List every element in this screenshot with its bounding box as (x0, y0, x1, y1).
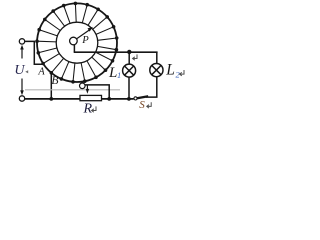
wire from top terminal to ring end A (25, 41, 43, 64)
lamp L2 branch upper wire (156, 52, 158, 64)
resistor R wiper tap wire (85, 85, 109, 99)
wire from ring end B down to bottom rail (50, 73, 52, 99)
lamp L2 (150, 64, 163, 77)
input terminal top (19, 39, 24, 44)
resistor R body (80, 95, 102, 100)
svg-text:P: P (81, 35, 89, 46)
switch S pivot circle (134, 97, 137, 100)
winding contact studs (dots) (35, 2, 118, 84)
svg-text:1: 1 (117, 70, 121, 80)
return mark after L1 lamp (133, 54, 137, 60)
wiper arrow P (77, 27, 93, 39)
junction node L1 / bottom rail (127, 97, 131, 101)
return mark after S (147, 102, 151, 108)
junction node B/bottom rail (49, 97, 53, 101)
wiper pivot circle (70, 37, 78, 45)
switch S lever (137, 96, 148, 98)
svg-text:L: L (165, 62, 175, 79)
resistor R wiper down arrow (86, 85, 89, 94)
input terminal bottom (19, 96, 24, 101)
lamp L1 branch lower wire (128, 77, 130, 99)
return mark after L2 (180, 70, 184, 76)
lamp L1 (123, 64, 136, 77)
svg-text:A: A (37, 66, 45, 77)
label U pilcrow mark (25, 70, 28, 73)
lamp L1 branch upper wire (128, 52, 130, 64)
bottom rail left of R (25, 98, 80, 100)
U up arrow (20, 45, 24, 59)
return mark after R (92, 106, 96, 112)
rheostat ring inner circle (56, 22, 98, 63)
winding spokes (37, 3, 117, 81)
svg-text:B: B (51, 74, 58, 87)
lamp L2 branch lower wire to switch stub (146, 77, 157, 97)
resistor R wiper circle (80, 83, 86, 89)
junction node on top wire (127, 50, 131, 54)
svg-text:U: U (14, 63, 25, 78)
scan artifact gray line (25, 89, 120, 91)
svg-text:L: L (108, 65, 117, 81)
U down arrow (20, 79, 24, 96)
rheostat ring outer circle (37, 3, 117, 82)
bottom rail right of R to switch (102, 98, 134, 100)
top wire from wiper to right (74, 51, 158, 53)
junction node wiper tap / bottom rail (107, 97, 111, 101)
wire stem from pivot down (73, 45, 75, 52)
svg-text:S: S (139, 99, 145, 111)
svg-text:R: R (83, 101, 93, 116)
